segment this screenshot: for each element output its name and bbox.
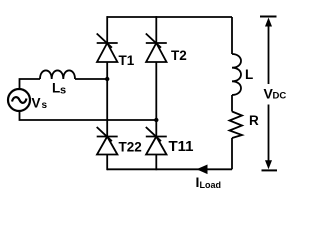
svg-text:DC: DC [273,91,287,102]
svg-text:s: s [42,100,48,111]
svg-text:L: L [52,80,60,95]
svg-text:T2: T2 [171,48,187,63]
svg-text:T11: T11 [169,138,194,155]
svg-text:s: s [60,85,66,97]
svg-text:R: R [249,113,259,128]
svg-text:Load: Load [200,180,222,190]
svg-text:T22: T22 [119,140,142,155]
svg-text:T1: T1 [119,53,135,68]
svg-text:V: V [32,96,41,111]
svg-text:L: L [245,67,253,82]
